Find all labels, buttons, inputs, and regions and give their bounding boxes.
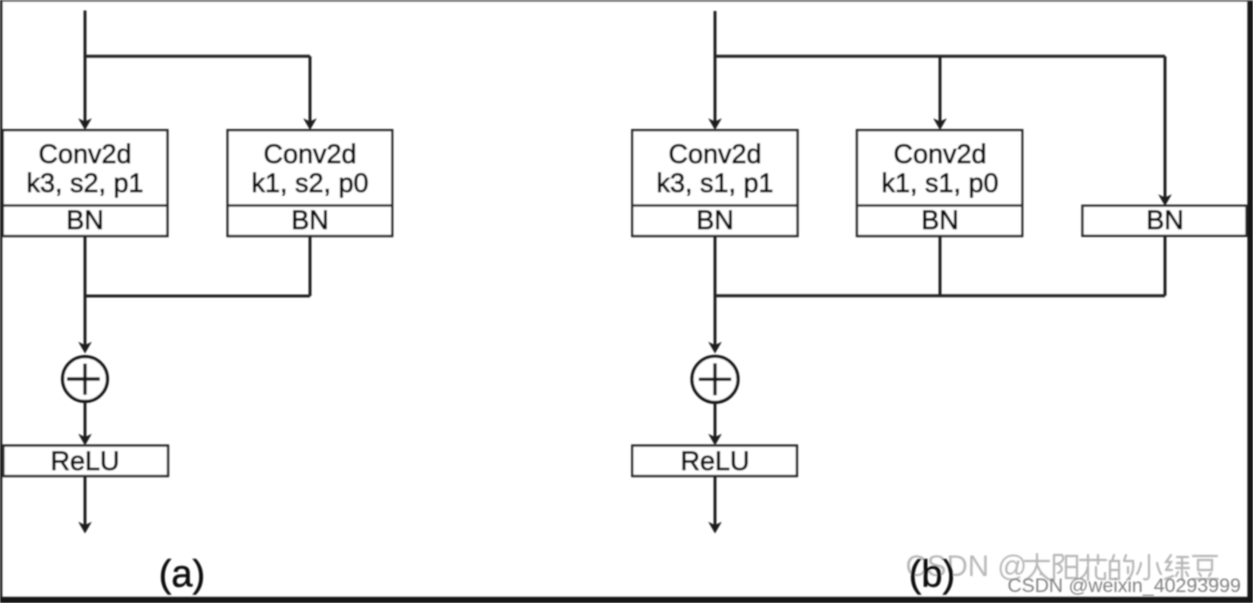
wire b-output [714, 476, 717, 526]
wire a-branch-right vertical [309, 56, 312, 122]
de [1110, 555, 1133, 580]
adder circle b (plus in circle) [692, 356, 738, 402]
top border line [0, 0, 1253, 2]
right border bar [1247, 1, 1253, 603]
wire adder-b to ReLU [714, 403, 717, 438]
watermark CJK glyphs approximation [1025, 554, 1218, 580]
wire a-merge horizontal [85, 295, 310, 298]
bottom border bar [0, 597, 1253, 603]
yang [1054, 555, 1077, 580]
box ReLU a [3, 446, 168, 476]
svg-text:k3, s2, p1: k3, s2, p1 [26, 168, 143, 198]
wire b3-out vertical [1164, 236, 1167, 296]
wire b-branch-right vertical [1164, 56, 1167, 198]
watermark CSDN @taiyanghua (light gray, CJK approximated) [906, 550, 1028, 583]
tai [1025, 554, 1050, 580]
lv [1165, 555, 1189, 580]
svg-text:ReLU: ReLU [50, 446, 119, 476]
svg-text:k3, s1, p1: k3, s1, p1 [656, 168, 773, 198]
wire a2-out vertical [309, 236, 312, 296]
svg-text:ReLU: ReLU [680, 446, 749, 476]
adder circle a (plus in circle) [63, 357, 108, 402]
svg-text:BN: BN [66, 205, 104, 235]
svg-text:k1, s2, p0: k1, s2, p0 [251, 168, 368, 198]
box b3 BN [1083, 205, 1247, 236]
wire b-branch horizontal [714, 55, 1165, 58]
arrowhead b-output [708, 522, 722, 534]
svg-text:Conv2d: Conv2d [668, 139, 761, 169]
wire a-trunk vertical [84, 11, 87, 123]
wire a-branch horizontal [84, 55, 310, 58]
arrowhead into box a2 [303, 118, 317, 130]
svg-text:Conv2d: Conv2d [893, 139, 986, 169]
wire b-trunk vertical [714, 11, 717, 123]
svg-text:k1, s1, p0: k1, s1, p0 [881, 168, 998, 198]
wire b2-out vertical [939, 236, 942, 296]
arrowhead into adder a [78, 342, 92, 354]
svg-text:CSDN @weixin_40293999: CSDN @weixin_40293999 [1008, 575, 1241, 597]
box a2 Conv2d k1,s2,p0 + BN [228, 130, 393, 236]
wire a-output [84, 476, 87, 526]
svg-text:(b): (b) [909, 554, 955, 596]
box ReLU b [632, 446, 797, 476]
svg-text:BN: BN [696, 205, 734, 235]
wire b-branch-mid vertical [939, 56, 942, 122]
arrowhead into ReLU b [708, 434, 722, 446]
svg-text:(a): (a) [159, 554, 205, 596]
xiao [1137, 555, 1161, 579]
svg-text:BN: BN [291, 205, 329, 235]
svg-text:BN: BN [921, 205, 959, 235]
wire adder-a to ReLU [84, 402, 87, 438]
arrowhead into box b3 BN [1158, 194, 1172, 206]
wire a1-out vertical to adder [84, 236, 87, 346]
svg-text:Conv2d: Conv2d [263, 139, 356, 169]
wire b1-out vertical to adder [714, 236, 717, 346]
wire b-merge horizontal [715, 294, 1165, 297]
hua [1080, 555, 1106, 580]
arrowhead into ReLU a [78, 434, 92, 446]
svg-text:BN: BN [1146, 205, 1184, 235]
arrowhead into box b2 [933, 118, 947, 130]
left border bar [0, 0, 2, 603]
arrowhead into adder b [708, 342, 722, 354]
box a1 Conv2d k3,s2,p1 + BN [3, 130, 168, 236]
svg-text:Conv2d: Conv2d [38, 139, 131, 169]
dou [1192, 556, 1218, 579]
arrowhead a-output [78, 522, 92, 534]
box b2 Conv2d k1,s1,p0 + BN [857, 130, 1022, 236]
arrowhead into box a1 [78, 118, 92, 130]
box b1 Conv2d k3,s1,p1 + BN [632, 130, 797, 236]
arrowhead into box b1 [708, 118, 722, 130]
